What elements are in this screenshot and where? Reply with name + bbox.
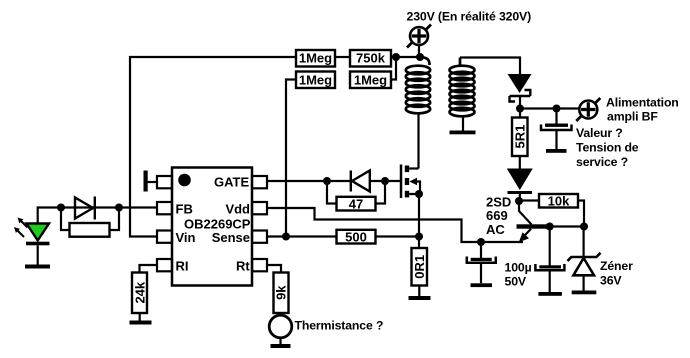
pin 1 mark dot [178, 174, 191, 187]
node zener [580, 223, 588, 231]
thermistor [269, 315, 292, 338]
svg-text:service ?: service ? [576, 155, 628, 169]
svg-text:Valeur ?: Valeur ? [576, 126, 623, 140]
drain [409, 167, 418, 169]
svg-text:500: 500 [345, 230, 367, 245]
diode D1 FB [75, 197, 95, 220]
pin1 NC stub [148, 181, 158, 183]
pin boxes right [252, 176, 267, 271]
capacitor C1 Vdd decoupling [480, 242, 482, 258]
ground 0R1 [409, 296, 431, 300]
svg-text:750k: 750k [356, 51, 386, 66]
transformer T1 primary winding [406, 57, 430, 113]
resistor 47 [327, 181, 337, 204]
node FB right [115, 204, 123, 212]
svg-text:Vdd: Vdd [225, 202, 250, 217]
svg-text:Rt: Rt [236, 259, 250, 274]
node gate right [381, 177, 389, 185]
svg-text:10k: 10k [548, 194, 570, 209]
wire base bar to right node [547, 225, 584, 227]
node cap C1 [477, 238, 485, 246]
zener diode 36V [582, 227, 584, 257]
transistor Q2 2SD669 [519, 201, 532, 225]
body arrow [412, 182, 420, 195]
svg-text:47: 47 [349, 197, 363, 212]
IC U1 OB2269CP [172, 168, 252, 286]
node sense divider [282, 233, 290, 241]
resistor 10k [519, 199, 539, 201]
diode D3 schottky secondary rectifier [508, 74, 532, 102]
ground C2 [538, 292, 562, 296]
node cap C3 [553, 105, 561, 113]
svg-text:Alimentation: Alimentation [606, 96, 679, 110]
resistor R 750k [350, 50, 391, 67]
source [409, 194, 419, 237]
resistor R 1Meg top row [296, 50, 335, 67]
wire D3 to node [519, 96, 521, 109]
wire terminal to node [418, 45, 420, 57]
svg-text:50V: 50V [505, 275, 527, 289]
capacitor C3 output filter [555, 109, 557, 125]
node junction primary top [416, 53, 424, 61]
svg-text:5R1: 5R1 [513, 125, 528, 149]
svg-text:1Meg: 1Meg [354, 73, 387, 88]
wire Rt to 9k [267, 265, 281, 273]
wire secondary bottom [462, 115, 464, 131]
svg-text:1Meg: 1Meg [299, 73, 332, 88]
MOSFET Q1 [400, 165, 403, 199]
svg-text:Tension de: Tension de [576, 141, 639, 155]
svg-text:AC: AC [486, 222, 505, 237]
svg-text:100µ: 100µ [505, 261, 532, 275]
svg-text:0R1: 0R1 [412, 255, 427, 279]
diode D4 series [507, 169, 533, 191]
pin boxes left [157, 176, 172, 271]
svg-text:Vin: Vin [176, 230, 196, 245]
wire secondary top to diode D3 [460, 58, 520, 75]
wire top-left loop from 1Meg to Vin [130, 57, 296, 237]
ground secondary [450, 131, 476, 135]
wire primary bottom to MOSFET drain [417, 112, 419, 169]
wire second row right 1Meg up to node [391, 57, 396, 80]
svg-text:RI: RI [176, 259, 189, 274]
resistor R 1Meg second row right [350, 72, 391, 89]
node junction 750k [392, 53, 400, 61]
wire 1Meg to 750k top row [335, 56, 350, 58]
wire second row left 1Meg down to Sense line [286, 80, 296, 237]
ground C3 [546, 149, 567, 153]
node 100u cap [546, 223, 554, 231]
node output [516, 105, 524, 113]
LED D6 [38, 208, 61, 224]
svg-text:Zéner: Zéner [600, 259, 633, 273]
svg-text:Sense: Sense [212, 230, 250, 245]
svg-text:FB: FB [176, 202, 193, 217]
svg-text:669: 669 [486, 208, 508, 223]
LED arrows [21, 221, 28, 228]
node gate left [323, 177, 331, 185]
node FB left [57, 204, 65, 212]
resistor 9k [274, 273, 289, 314]
svg-text:ampli BF: ampli BF [607, 110, 658, 124]
wire Sense line [267, 235, 337, 237]
ground thermistor [271, 344, 291, 348]
ground 24k [130, 321, 152, 325]
wire output node to terminal [520, 107, 579, 109]
wire RI to 24k [140, 265, 158, 273]
terminal Alimentation ampli BF [576, 98, 600, 121]
svg-text:36V: 36V [600, 274, 622, 288]
terminal 230V [407, 25, 431, 48]
resistor 0R1 [418, 237, 420, 249]
wire GATE line [267, 180, 350, 182]
resistor 24k [132, 273, 147, 314]
diode D2 gate [351, 171, 370, 192]
ground LED [25, 265, 50, 269]
ground zener [572, 291, 597, 295]
resistor 5R1 [519, 109, 521, 118]
svg-text:24k: 24k [132, 281, 147, 303]
node sense resistor [415, 233, 423, 241]
wire FB line [61, 206, 157, 208]
wire Vdd to emitter rail [267, 208, 523, 242]
svg-text:230V (En réalité 320V): 230V (En réalité 320V) [407, 10, 532, 24]
svg-text:GATE: GATE [214, 175, 249, 190]
svg-text:9k: 9k [274, 285, 289, 300]
resistor 500 [337, 230, 376, 244]
node collector [515, 197, 523, 205]
wire 750k to node [391, 56, 420, 58]
ground C1 [471, 283, 493, 287]
capacitor C2 100u 50V [549, 227, 551, 266]
node source [415, 190, 423, 198]
svg-text:1Meg: 1Meg [299, 51, 332, 66]
resistor R 1Meg second row left [296, 72, 335, 89]
resistor unlabeled parallel FB [61, 208, 70, 231]
transformer T1 secondary winding [450, 58, 475, 117]
svg-text:Thermistance ?: Thermistance ? [295, 319, 384, 333]
